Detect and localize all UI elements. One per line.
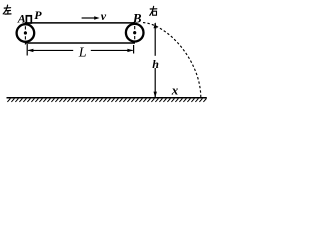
- svg-text:B: B: [132, 10, 142, 25]
- svg-text:h: h: [152, 57, 159, 71]
- pulley B centerline: [134, 26, 136, 41]
- dimension h line with arrowheads: [154, 23, 156, 56]
- dimension L extension tick left: [26, 44, 28, 56]
- dimension L extension tick right: [133, 45, 135, 54]
- svg-text:P: P: [34, 8, 42, 22]
- projectile trajectory (dashed): [143, 23, 201, 98]
- pulley B circle: [126, 24, 144, 42]
- belt speed arrow v: [82, 17, 96, 19]
- pulley A centerline: [24, 26, 26, 46]
- svg-text:x: x: [171, 83, 179, 98]
- belt bottom line: [25, 42, 135, 44]
- pulley B center dot: [133, 31, 136, 34]
- belt top line: [25, 22, 135, 24]
- label 左 (left): [3, 5, 11, 14]
- label 右 (right): [150, 6, 157, 15]
- svg-text:L: L: [78, 46, 87, 61]
- svg-text:A: A: [17, 12, 26, 26]
- svg-text:v: v: [101, 9, 107, 23]
- ground line: [7, 97, 207, 99]
- dimension L line with arrowheads: [28, 49, 73, 51]
- ground hatching: [7, 99, 206, 102]
- block P on belt: [26, 16, 31, 23]
- pulley A circle: [17, 24, 35, 42]
- pulley A center dot: [24, 31, 27, 34]
